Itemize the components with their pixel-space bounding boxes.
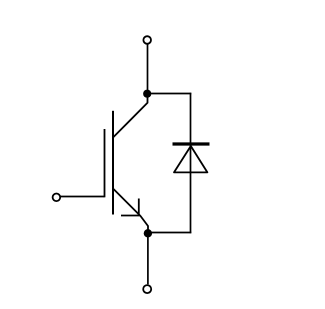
node E (emitter junction dot)	[144, 229, 152, 237]
wire: node E to emitter terminal	[147, 234, 149, 284]
diode D1	[173, 144, 210, 172]
wire: diode branch vertical	[190, 93, 192, 234]
terminal C (collector terminal circle)	[143, 36, 151, 44]
wire: node C to diode branch top	[147, 93, 191, 95]
terminal E (emitter terminal circle)	[143, 285, 151, 293]
Q1 emitter arrow barb horizontal	[121, 215, 140, 217]
Q1 channel bar	[112, 111, 114, 215]
transistor Q1 (IGBT)	[105, 94, 149, 231]
D1 cathode bar	[173, 142, 210, 145]
wire: collector terminal to node C	[147, 44, 149, 92]
Q1 collector lead (stub + diagonal)	[114, 94, 148, 137]
node C (collector junction dot)	[143, 90, 151, 98]
wire: gate lead	[61, 196, 105, 198]
Q1 gate bar	[104, 129, 106, 197]
wire: diode branch bottom to node E	[147, 232, 191, 234]
terminal G (gate terminal circle)	[53, 194, 61, 202]
D1 anode triangle	[174, 146, 207, 172]
Q1 emitter lead diagonal	[114, 189, 149, 231]
Q1 emitter arrow barb vertical	[138, 199, 140, 216]
